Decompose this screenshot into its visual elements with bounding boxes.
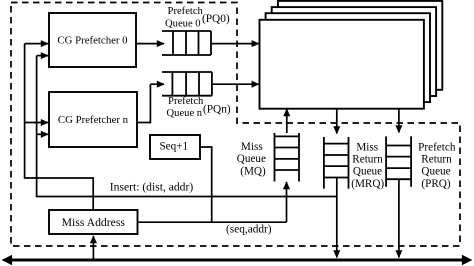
svg-text:Seq+1: Seq+1 bbox=[159, 140, 188, 152]
svg-text:Prefetch: Prefetch bbox=[168, 6, 204, 17]
svg-text:Insert: (dist, addr): Insert: (dist, addr) bbox=[110, 180, 194, 193]
svg-text:Queue 0: Queue 0 bbox=[165, 18, 201, 29]
svg-text:(MQ): (MQ) bbox=[240, 165, 266, 177]
svg-text:Prefetch: Prefetch bbox=[418, 141, 456, 153]
svg-text:Queue: Queue bbox=[421, 166, 450, 178]
svg-text:Queue: Queue bbox=[353, 166, 382, 178]
svg-text:Prefetch: Prefetch bbox=[168, 96, 204, 107]
svg-text:(PQn): (PQn) bbox=[203, 104, 231, 116]
svg-text:Queue: Queue bbox=[237, 153, 266, 165]
svg-text:Queue n: Queue n bbox=[167, 108, 203, 119]
svg-text:Return: Return bbox=[352, 154, 383, 166]
svg-text:(seq,addr): (seq,addr) bbox=[226, 223, 272, 235]
svg-text:Return: Return bbox=[421, 154, 452, 166]
svg-text:(PRQ): (PRQ) bbox=[421, 178, 450, 190]
svg-text:Miss Address: Miss Address bbox=[62, 216, 126, 229]
svg-text:(MRQ): (MRQ) bbox=[351, 178, 384, 190]
svg-text:CG Prefetcher 0: CG Prefetcher 0 bbox=[57, 35, 127, 47]
svg-text:Miss: Miss bbox=[356, 141, 378, 153]
svg-text:CG Prefetcher n: CG Prefetcher n bbox=[58, 114, 129, 126]
svg-text:Miss: Miss bbox=[241, 141, 263, 153]
svg-text:(PQ0): (PQ0) bbox=[202, 13, 230, 25]
